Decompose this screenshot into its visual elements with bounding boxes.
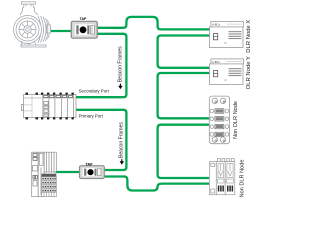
svg-text:DLR Node Y: DLR Node Y [246,56,252,89]
svg-text:Beacon Frames: Beacon Frames [117,46,123,82]
svg-text:Non DLR Node: Non DLR Node [233,101,239,139]
svg-text:DLR Node X: DLR Node X [246,20,252,53]
svg-text:TAP: TAP [80,17,87,21]
svg-text:Primary Port: Primary Port [79,113,104,118]
svg-text:Secondary Port: Secondary Port [79,88,110,93]
svg-text:Non DLR Node: Non DLR Node [239,160,245,198]
svg-text:Beacon Frames: Beacon Frames [119,122,125,158]
svg-text:TAP: TAP [85,162,93,166]
svg-text:A-BCx: A-BCx [212,23,221,27]
svg-text:A-BCx: A-BCx [212,60,221,64]
